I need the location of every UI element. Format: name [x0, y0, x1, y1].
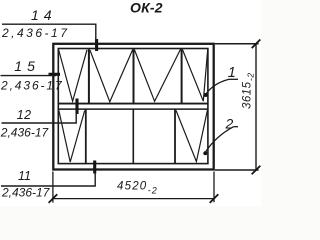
- top mullion 3: [181, 49, 183, 103]
- svg-text:2,436-17: 2,436-17: [0, 126, 49, 140]
- top sash 4 opening V: [183, 50, 208, 102]
- tick mark for pos 12 on transom: [75, 99, 78, 115]
- bottom mullion 1: [85, 109, 87, 163]
- leader pos 14: [2, 24, 96, 43]
- dimension line 3615: [255, 44, 257, 170]
- top mullion 2: [133, 49, 135, 103]
- slash tick right end of 4520: [210, 194, 219, 203]
- svg-text:1: 1: [228, 65, 236, 81]
- top sash 2 opening V: [90, 50, 133, 102]
- tick mark for pos 15 on left frame: [49, 73, 61, 76]
- slash tick left end of 4520: [49, 194, 58, 203]
- svg-text:11: 11: [18, 169, 31, 183]
- leader pos 2: [206, 127, 234, 152]
- extension line top right: [215, 43, 259, 45]
- svg-text:ОК-2: ОК-2: [130, 0, 163, 16]
- dimension line 4520: [53, 198, 214, 200]
- top sash 3 opening V: [134, 49, 180, 101]
- leader pos 11: [1, 172, 95, 187]
- window inner frame: [58, 49, 208, 164]
- bottom mullion 2: [132, 109, 134, 163]
- extension line bottom right: [213, 172, 215, 203]
- svg-text:15: 15: [14, 58, 40, 74]
- transom lower line: [58, 108, 208, 110]
- shelf under pos 1: [229, 78, 238, 80]
- tick mark for pos 14 on top frame: [95, 39, 98, 51]
- svg-text:2,436-17: 2,436-17: [1, 186, 51, 200]
- leader dot pos 2: [203, 151, 207, 155]
- window outer frame: [53, 44, 213, 170]
- leader pos 12: [2, 110, 77, 124]
- top mullion 1: [88, 49, 90, 103]
- extension line bottom left: [52, 172, 54, 203]
- bottom mullion 3: [174, 109, 176, 163]
- bottom sash 4 opening V: [176, 110, 207, 161]
- svg-text:2,436-17: 2,436-17: [0, 79, 64, 93]
- leader dot pos 1: [204, 93, 208, 97]
- leader pos 15: [1, 75, 57, 77]
- slash tick bottom end of 3615: [252, 166, 261, 175]
- slash tick top end of 3615: [252, 40, 261, 49]
- shelf under pos 2: [234, 126, 238, 128]
- bottom sash 1 opening V: [59, 110, 85, 162]
- extension line lower right: [215, 169, 259, 171]
- svg-text:12: 12: [17, 108, 32, 122]
- tick mark for pos 11 on bottom frame: [93, 161, 96, 174]
- top sash 1 opening V: [59, 50, 87, 102]
- transom upper line: [58, 103, 208, 105]
- svg-text:14: 14: [31, 7, 57, 23]
- leader pos 1: [206, 79, 229, 94]
- svg-text:2,436-17: 2,436-17: [1, 26, 69, 40]
